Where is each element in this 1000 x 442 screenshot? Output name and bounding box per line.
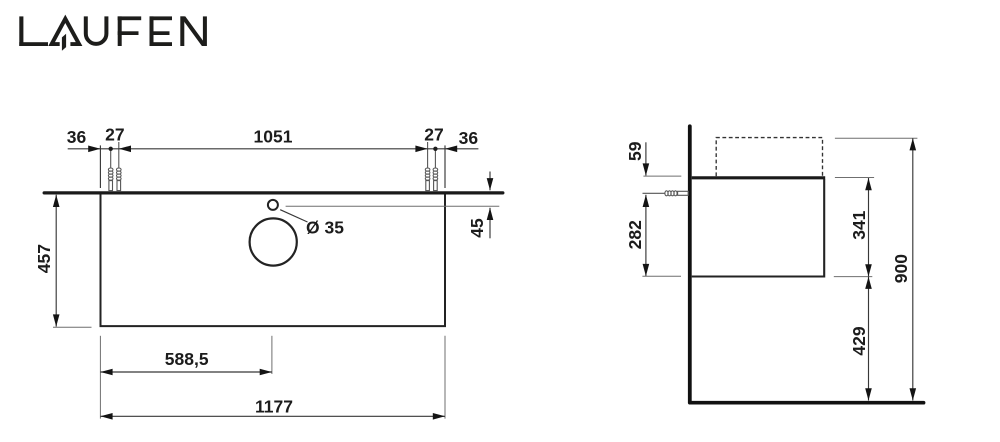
arrow 27 left / 1051 left <box>119 146 131 153</box>
svg-text:457: 457 <box>34 244 54 273</box>
basin drain circle <box>250 218 297 265</box>
svg-text:59: 59 <box>625 141 645 161</box>
svg-text:341: 341 <box>849 210 869 239</box>
cabinet top (side view) <box>692 176 826 179</box>
logo letter L <box>19 16 48 46</box>
extension line cabinet top right <box>835 177 874 179</box>
dimension 341 line <box>868 178 870 277</box>
dimension 45 lower segment <box>489 208 491 239</box>
svg-text:900: 900 <box>891 254 911 283</box>
svg-text:588,5: 588,5 <box>165 349 209 369</box>
tap hole level extension line <box>286 205 500 207</box>
svg-text:27: 27 <box>105 125 124 145</box>
logo letter U <box>86 16 107 43</box>
extension line washtop right edge <box>444 145 446 188</box>
arrow 1177 right <box>433 413 445 420</box>
arrow 341 top <box>865 178 872 190</box>
extension line washtop bottom left <box>53 326 92 328</box>
arrow 588,5 right <box>260 369 272 376</box>
wall (side view) <box>688 126 692 402</box>
arrow 341 bottom <box>865 264 872 276</box>
dimension 45 upper segment <box>489 172 491 191</box>
side view screw <box>643 191 689 196</box>
leader line tap hole <box>280 210 307 222</box>
cabinet side profile <box>692 179 825 277</box>
arrow 900 top <box>910 138 917 150</box>
svg-text:1177: 1177 <box>255 397 293 417</box>
arrow 45 up <box>487 208 494 220</box>
dimension 457 line <box>55 195 57 327</box>
arrow 588,5 left <box>100 369 112 376</box>
arrow 282 bottom <box>643 264 650 276</box>
logo letter F <box>118 16 142 46</box>
top dimension chain line <box>68 148 479 150</box>
logo letter E <box>150 16 173 46</box>
logo letter N <box>180 16 207 46</box>
dimension 588,5 line <box>100 371 272 373</box>
svg-text:Ø 35: Ø 35 <box>306 218 344 238</box>
extension line cabinet bottom left <box>642 275 681 277</box>
arrow 36 right <box>445 146 457 153</box>
node dot screw left <box>109 147 113 151</box>
svg-text:1051: 1051 <box>254 127 293 147</box>
extension line cabinet bottom right <box>834 276 873 278</box>
extension line 900 top <box>835 137 918 139</box>
arrow 1177 left <box>100 413 112 420</box>
arrow 457 top <box>53 195 60 207</box>
node dot screw right <box>433 147 437 151</box>
wall anchor screw right B <box>433 151 438 191</box>
svg-text:36: 36 <box>459 128 479 148</box>
wall anchor screw left A <box>108 151 113 191</box>
arrow 1051 right / 27 right <box>415 146 427 153</box>
arrow 900 bottom <box>910 388 917 400</box>
dimension 59 line <box>645 142 647 175</box>
svg-text:27: 27 <box>424 125 443 145</box>
extension line below right <box>444 336 446 419</box>
countertop (plan back edge) <box>44 191 503 194</box>
floor (side view) <box>690 401 924 405</box>
arrow 45 down <box>487 178 494 190</box>
extension line cabinet top left <box>643 175 681 177</box>
dimension 282 line <box>645 195 647 276</box>
arrow 36 left <box>88 146 100 153</box>
arrow 59 down <box>643 163 650 175</box>
dimension 900 line <box>912 138 914 400</box>
wall anchor screw right A <box>425 142 430 191</box>
washtop outline <box>101 194 446 326</box>
arrow 429 top <box>865 277 872 289</box>
svg-text:282: 282 <box>625 220 645 249</box>
svg-text:429: 429 <box>849 326 869 355</box>
dimension 429 line <box>868 277 870 401</box>
arrow 457 bottom <box>53 314 60 326</box>
washbasin dashed outline <box>716 138 822 177</box>
arrow 282 top <box>643 195 650 207</box>
wall anchor screw left B <box>117 142 122 191</box>
extension line washtop left edge <box>99 145 101 188</box>
svg-text:36: 36 <box>67 127 87 147</box>
svg-text:45: 45 <box>467 218 487 238</box>
extension line below drain center <box>271 336 273 374</box>
dimension 1177 line <box>100 415 445 417</box>
extension line below left <box>99 336 101 419</box>
arrow 429 bottom <box>865 388 872 400</box>
tap hole small circle <box>268 200 278 210</box>
logo letter A <box>48 15 82 51</box>
